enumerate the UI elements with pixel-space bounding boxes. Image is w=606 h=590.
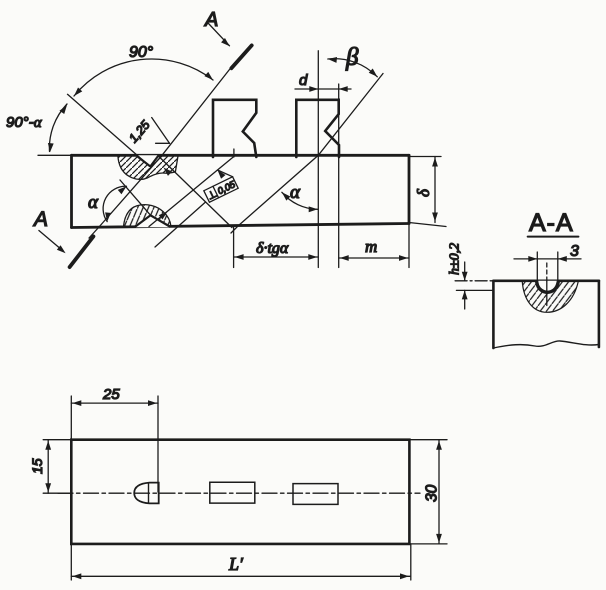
beta arc [328, 59, 378, 77]
section body top edge [493, 279, 599, 282]
section line A-A diagonal [89, 65, 233, 238]
plan center line [58, 492, 420, 494]
tooth 2 center line [317, 51, 319, 268]
dimension delta (right) [409, 156, 441, 158]
section groove slot [537, 281, 558, 293]
groove 2 V notch [135, 215, 169, 227]
section stroke top [231, 45, 251, 68]
plan slot 1 rectangle [210, 482, 255, 503]
surface extension line left [38, 154, 72, 156]
slot radius line P [68, 94, 151, 166]
section stroke bottom [70, 236, 94, 267]
plan view rectangle [71, 440, 409, 544]
svg-text:90°: 90° [129, 44, 154, 61]
section arrow top [209, 24, 230, 46]
groove 1 V notch [138, 155, 159, 166]
svg-text:A: A [204, 9, 218, 31]
svg-text:β: β [345, 44, 359, 71]
tooth 2 [296, 100, 339, 157]
90-alpha arc [49, 104, 67, 152]
1.25 tick [156, 142, 170, 144]
perpendicularity tolerance leader [218, 170, 233, 177]
svg-text:30: 30 [424, 484, 441, 502]
h arrows [464, 262, 466, 281]
svg-text:3: 3 [570, 243, 579, 260]
svg-text:15: 15 [29, 458, 45, 474]
dimension h: extension lines [455, 280, 493, 282]
svg-text:d: d [299, 72, 308, 89]
slot 1 exit extension line [233, 227, 235, 267]
dimension delta tg alpha [234, 256, 319, 258]
dimension 3 [514, 258, 581, 260]
section body right edge [598, 281, 601, 347]
tooth 1 [213, 100, 256, 157]
svg-text:90°-α: 90°-α [6, 114, 43, 131]
svg-text:α: α [88, 192, 99, 213]
svg-text:1,25: 1,25 [126, 118, 153, 146]
svg-text:A-A: A-A [529, 209, 574, 237]
dimension L' [70, 544, 72, 580]
right edge extension below [408, 224, 410, 268]
slot 1 lower line U3 [149, 156, 234, 226]
dimension 15 [43, 439, 71, 441]
tooth 2 right extension line [338, 84, 340, 268]
section body break line bottom [493, 341, 599, 348]
section body left edge [492, 281, 495, 348]
dimension m [339, 257, 409, 259]
plan slot 2 rectangle [293, 484, 338, 505]
svg-text:h±0,2: h±0,2 [448, 243, 463, 275]
svg-text:α: α [290, 182, 301, 203]
groove center line dashed [546, 263, 548, 281]
groove 1 hatched blob [118, 156, 178, 180]
section arrow bottom [39, 231, 63, 251]
alpha arc right [282, 192, 318, 209]
svg-text:L′: L′ [228, 554, 244, 574]
dimension 30 [409, 439, 447, 441]
svg-text:m: m [365, 237, 377, 256]
90 degree arc [74, 59, 213, 96]
svg-text:δ·tgα: δ·tgα [256, 240, 289, 257]
alpha arc left [103, 186, 126, 221]
plan D-shaped slot exit [134, 483, 159, 504]
blade line 2 (beta diagonal) [231, 74, 383, 234]
svg-text:A: A [32, 208, 48, 231]
section hatched dome [522, 281, 578, 313]
slot 1 right wall D2 [158, 156, 232, 228]
tooth 1 center tick [233, 149, 235, 157]
svg-text:25: 25 [102, 386, 120, 403]
perpendicularity tolerance box [204, 177, 239, 203]
dimension d [295, 88, 351, 90]
bar body outline (side view) [72, 155, 410, 227]
groove extension lines [536, 252, 538, 281]
slot 1 left wall D3 [120, 180, 151, 216]
dimension 25 [70, 396, 72, 440]
groove 2 hatched blob [124, 205, 172, 227]
svg-text:δ: δ [414, 188, 433, 197]
tolerance line B below box [155, 203, 205, 248]
1.25 leader line [152, 118, 170, 144]
